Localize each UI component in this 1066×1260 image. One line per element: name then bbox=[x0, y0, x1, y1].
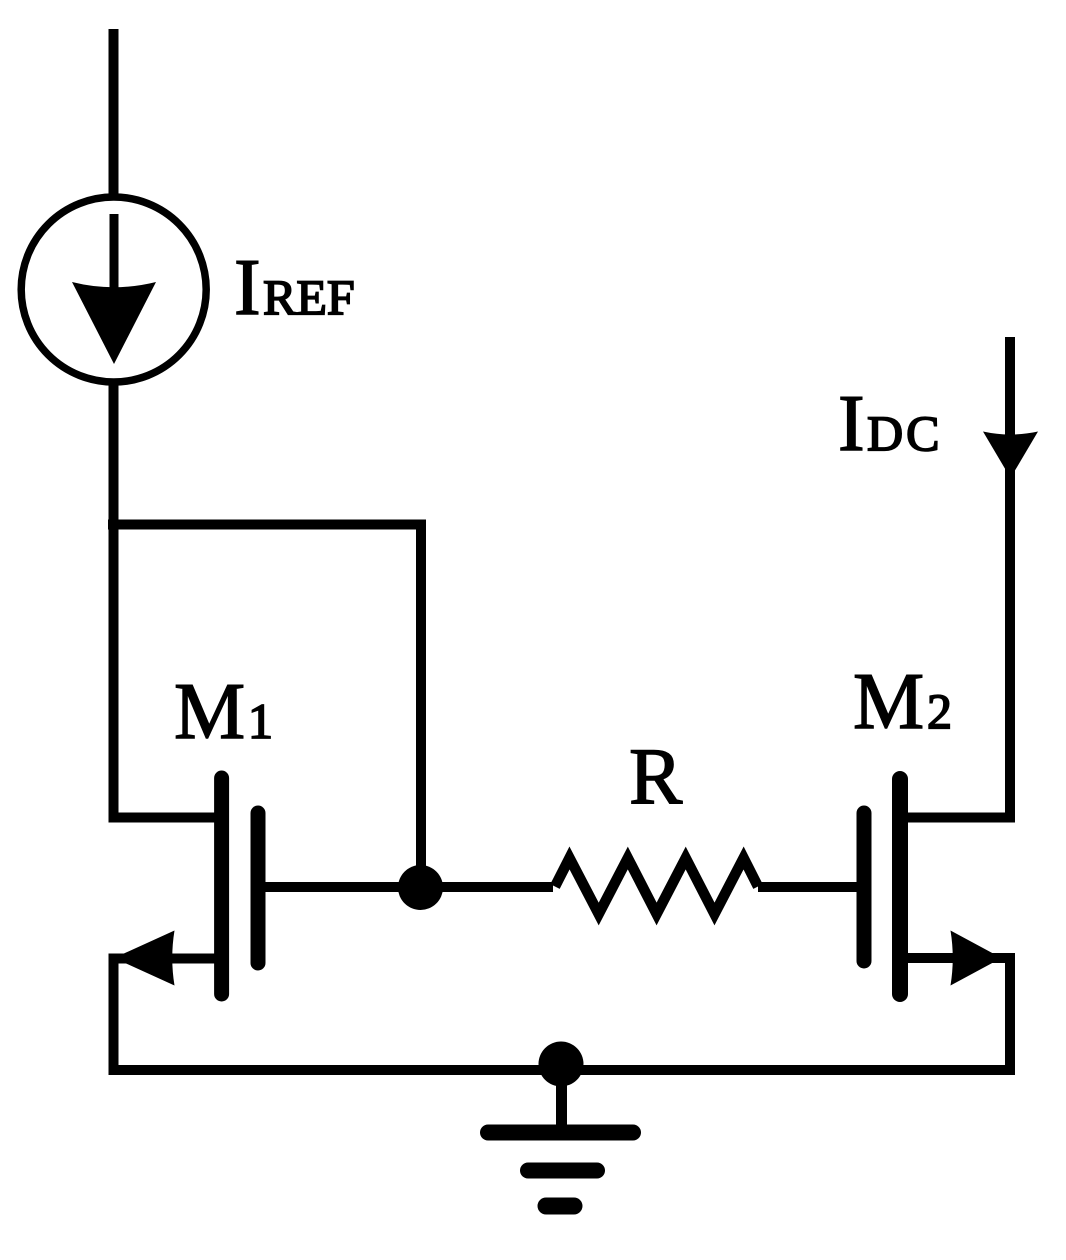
ground bar 2 bbox=[528, 1163, 597, 1179]
IDC arrowhead bbox=[983, 432, 1038, 479]
transistor M1 gate bar bbox=[251, 813, 266, 963]
svg-text:REF: REF bbox=[263, 269, 355, 325]
svg-text:2: 2 bbox=[927, 683, 952, 739]
transistor M2 gate bar bbox=[857, 813, 872, 961]
current source IREF circle bbox=[21, 197, 206, 382]
wire M2 source down to ground rail bbox=[1005, 953, 1015, 1075]
ground node junction dot bbox=[539, 1042, 584, 1087]
svg-text:I: I bbox=[838, 380, 865, 468]
wire ground rail bottom bbox=[109, 1065, 1016, 1075]
svg-text:1: 1 bbox=[248, 693, 273, 749]
current source arrowhead bbox=[72, 282, 156, 364]
wire M2 source horizontal bbox=[900, 953, 1010, 963]
wire IDC vertical feed bbox=[1005, 337, 1015, 822]
svg-text:DC: DC bbox=[867, 405, 942, 461]
wire top feed to current source bbox=[109, 29, 119, 200]
svg-text:M: M bbox=[853, 658, 924, 746]
wire M1 gate to node A and resistor bbox=[265, 882, 553, 892]
node A junction dot bbox=[398, 865, 443, 910]
transistor M1 source arrow bbox=[114, 931, 175, 986]
resistor R zigzag bbox=[555, 858, 758, 914]
svg-text:I: I bbox=[234, 244, 261, 332]
wire M1 source horizontal bbox=[114, 954, 223, 964]
transistor M2 channel bar bbox=[892, 779, 908, 994]
svg-text:R: R bbox=[629, 733, 683, 821]
wire gate-loop right vertical down to node A bbox=[416, 520, 426, 888]
ground bar 1 bbox=[488, 1125, 633, 1141]
svg-text:M: M bbox=[174, 668, 245, 756]
transistor M2 source arrow bbox=[951, 931, 1002, 986]
wire M1 drain horizontal bbox=[109, 813, 223, 823]
current source arrow stem bbox=[110, 214, 119, 320]
ground bar 3 bbox=[546, 1198, 574, 1215]
wire from current source down to M1 drain bbox=[109, 379, 119, 822]
wire M2 drain horizontal bbox=[900, 813, 1015, 823]
wire resistor to M2 gate bbox=[758, 882, 860, 892]
transistor M1 channel bar bbox=[214, 778, 229, 994]
ground stub bbox=[556, 1064, 567, 1128]
wire gate-loop top horizontal bbox=[108, 520, 426, 530]
wire M1 source down to ground rail bbox=[109, 954, 119, 1076]
